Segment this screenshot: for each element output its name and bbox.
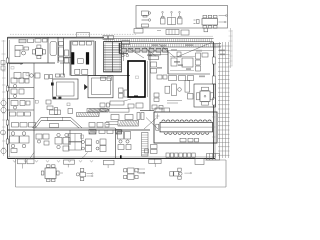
- hatched ramp band lower: [118, 121, 139, 127]
- vestibule top cabinets: [73, 42, 92, 46]
- tall cabinet: [185, 80, 193, 99]
- bottom dimension ticks: [13, 160, 93, 162]
- label box near stairs: [122, 41, 130, 45]
- square table 4 chairs right: [194, 84, 216, 107]
- box above walkway: [50, 110, 61, 115]
- wall vertical x48: [47, 37, 49, 63]
- boxes above band: [134, 28, 208, 35]
- top-right band vertical left: [118, 43, 120, 54]
- partition x34: [33, 130, 35, 159]
- apron cluster 1: [18, 159, 35, 169]
- door arrow between rooms: [84, 84, 87, 90]
- vestibule table: [78, 59, 84, 64]
- desk cluster top-left: [15, 46, 29, 57]
- wall vertical x70: [69, 41, 71, 76]
- apron cluster 3: [149, 159, 161, 167]
- row of squares right: [166, 153, 195, 158]
- inset arrow symbol: [142, 19, 151, 21]
- apron cluster 2: [76, 168, 93, 180]
- left margin symbols: [1, 100, 7, 153]
- desks below wall: [9, 63, 40, 79]
- text blobs top right: [147, 44, 225, 77]
- diagonal leader lines: [128, 42, 213, 58]
- boxes on corridor: [89, 123, 109, 128]
- meeting room east: [88, 76, 113, 98]
- bold shaft rectangle: [128, 61, 145, 97]
- door swing bottom: [82, 153, 88, 159]
- room interior line 2: [170, 70, 194, 72]
- line right of shaft: [147, 61, 149, 97]
- desk mid small 2: [96, 139, 106, 152]
- conference table with chairs: [156, 115, 216, 140]
- small rects below stairs wall: [101, 77, 112, 81]
- table with 4 chairs top-left: [32, 45, 45, 59]
- left room divider y110: [8, 109, 35, 111]
- label 19 b: [67, 103, 70, 106]
- left room furniture 2: [11, 89, 24, 98]
- left room furniture 1: [11, 78, 29, 88]
- shelves right-mid: [145, 145, 158, 154]
- top dimension dashes: [10, 33, 136, 35]
- hatched wall pieces corridor: [89, 130, 122, 135]
- rects above conference: [155, 108, 170, 112]
- right dim extra top: [229, 28, 233, 68]
- label boxes in conference: [180, 138, 199, 142]
- bookshelf hatched: [142, 133, 149, 157]
- top band 1: [104, 39, 214, 42]
- apron desk pair: [124, 168, 145, 179]
- box on corridor line: [50, 124, 59, 128]
- desk cluster bottom-left 2: [55, 133, 70, 151]
- wall x150 vertical: [149, 47, 151, 111]
- wall x94: [94, 41, 96, 76]
- desk pair mid: [69, 134, 82, 151]
- inset desk symbol 2: [142, 24, 149, 27]
- conference dim mark: [156, 114, 160, 120]
- extra band lines: [104, 36, 213, 54]
- inset table group middle: [161, 11, 183, 24]
- apron desk B: [64, 160, 75, 167]
- dark marks under meeting room: [53, 97, 62, 99]
- apron cluster 4: [170, 168, 192, 179]
- boxes mid corridor: [111, 113, 144, 120]
- hatched band B: [77, 113, 100, 117]
- casework near shaft south: [128, 103, 143, 108]
- hatched band A: [87, 109, 109, 113]
- wall y110 right: [140, 110, 154, 112]
- desk cluster bottom-mid: [118, 132, 132, 150]
- corridor band left lines: [106, 122, 118, 125]
- apron 6-chair table: [41, 165, 63, 182]
- small marks below rooms: [46, 100, 53, 110]
- desk cluster bottom-left 1: [10, 132, 30, 153]
- bottom wall inner: [8, 156, 216, 158]
- tall door leaf: [50, 42, 57, 56]
- walkway ramp: [33, 117, 83, 128]
- inset conference table group: [194, 15, 228, 29]
- black bar west: [71, 52, 74, 64]
- label 19 a: [35, 100, 38, 103]
- cabinet row top-left: [19, 39, 47, 43]
- label 10 box: [80, 135, 83, 138]
- vestibule room: [71, 41, 94, 76]
- small desk mid hall: [68, 109, 73, 114]
- wall stub and jamb: [45, 74, 65, 86]
- meeting room west: [53, 79, 78, 99]
- small rects x64: [65, 50, 69, 63]
- corridor wall y128: [33, 127, 115, 129]
- cabinet row bottom-left: [12, 123, 36, 128]
- right exterior wall: [213, 42, 216, 159]
- partition x116: [115, 128, 117, 159]
- bottom wall: [8, 158, 216, 160]
- wall vertical x58: [57, 37, 59, 63]
- wall mid-left horizontal: [8, 62, 56, 64]
- left exterior wall: [6, 37, 9, 158]
- black tick bottom wall: [120, 155, 122, 158]
- circles under gray row: [122, 54, 129, 57]
- boxes below room left: [157, 75, 167, 79]
- furniture row under band: [122, 48, 168, 52]
- label box center: [110, 99, 131, 105]
- inset detail box border: [136, 6, 228, 29]
- conference room: [154, 112, 217, 143]
- wall vertical x63: [63, 38, 65, 76]
- door swing bottom left: [30, 152, 35, 159]
- canopy above vestibule: [77, 33, 90, 38]
- apron dim marks left: [138, 168, 146, 173]
- apron boundary: [16, 159, 227, 188]
- left vertical x34 upper: [33, 63, 35, 130]
- right dimension lines: [218, 42, 230, 158]
- shaft door tick: [134, 96, 138, 98]
- inset desk symbol 1: [142, 11, 151, 17]
- vestibule bottom cabinets: [75, 69, 88, 74]
- room interior line 1: [170, 56, 195, 58]
- wall mid-left horizontal 2: [60, 62, 70, 64]
- left margin boxes: [1, 61, 5, 71]
- small rects left of shaft: [119, 88, 128, 98]
- staircase: [104, 42, 122, 73]
- top band 2: [120, 44, 221, 47]
- left room divider y98: [8, 98, 35, 100]
- desk pair right-mid: [165, 84, 182, 103]
- line right of stairs: [122, 44, 124, 61]
- small rects x154: [152, 93, 163, 109]
- apron desk C: [104, 160, 115, 168]
- corridor wall y130: [8, 129, 151, 131]
- column mid hall: [55, 108, 58, 115]
- wall y75.7: [94, 75, 130, 77]
- apron small desk right: [195, 159, 204, 165]
- upper right room south wall: [168, 73, 210, 75]
- narrow room shelves: [59, 42, 64, 62]
- left dimension line: [2, 40, 6, 156]
- left room furniture 3: [11, 101, 30, 110]
- upper right room table: [171, 52, 193, 67]
- left room divider y87: [8, 87, 35, 89]
- upper right cabinets east: [196, 53, 209, 71]
- cabinets right of x150: [149, 51, 161, 73]
- black bar east: [86, 52, 89, 64]
- small marks below stairs: [100, 103, 110, 112]
- partition x70: [69, 130, 71, 145]
- label box center 2: [109, 109, 129, 113]
- steps right: [207, 154, 220, 161]
- crossing diagonals corridor: [144, 118, 158, 130]
- cabinet row left upper: [10, 112, 31, 116]
- upper right room west wall: [167, 51, 169, 75]
- wall stub left of vestibule: [64, 56, 72, 58]
- desk cluster bottom-left 1b: [36, 134, 49, 145]
- desk mid small: [82, 139, 92, 152]
- top wall left section: [8, 37, 105, 39]
- cabinets above stairs: [103, 36, 114, 40]
- boxes below room: [169, 76, 194, 81]
- wall seg above shaft: [119, 53, 128, 55]
- shaft label 13: [136, 76, 139, 79]
